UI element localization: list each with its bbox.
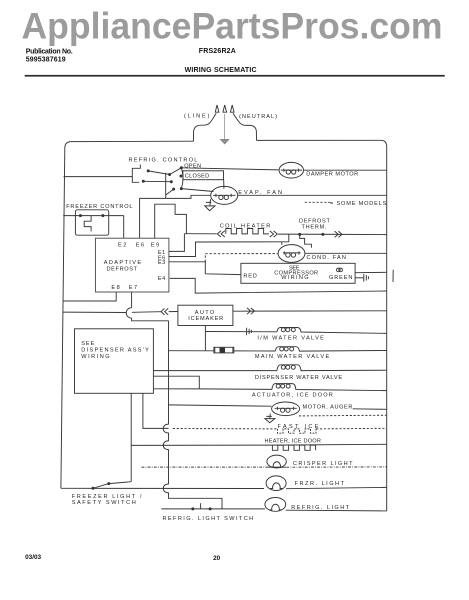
svg-text:CLOSED: CLOSED [185, 174, 210, 180]
svg-text:DAMPER MOTOR: DAMPER MOTOR [306, 172, 358, 178]
svg-text:AUTO: AUTO [195, 310, 215, 316]
svg-text:= SOME MODELS: = SOME MODELS [330, 201, 387, 207]
svg-text:FREEZER CONTROL: FREEZER CONTROL [66, 204, 132, 210]
svg-text:REFRIG. CONTROL: REFRIG. CONTROL [129, 157, 198, 163]
svg-text:ICEMAKER: ICEMAKER [188, 316, 223, 322]
svg-text:E3: E3 [158, 260, 166, 266]
svg-text:(LINE): (LINE) [184, 114, 210, 120]
svg-text:SEE: SEE [81, 341, 94, 347]
svg-text:MOTOR, AUGER: MOTOR, AUGER [303, 405, 353, 411]
svg-text:DEFROST: DEFROST [107, 267, 138, 273]
svg-text:COIL HEATER: COIL HEATER [220, 224, 271, 230]
svg-text:MAIN WATER VALVE: MAIN WATER VALVE [255, 354, 330, 360]
svg-text:FRS26R2A: FRS26R2A [199, 48, 236, 55]
svg-text:5995387619: 5995387619 [26, 57, 66, 64]
svg-text:EVAP. FAN: EVAP. FAN [238, 190, 282, 196]
svg-text:(NEUTRAL): (NEUTRAL) [239, 114, 277, 120]
svg-text:COND. FAN: COND. FAN [307, 255, 347, 261]
svg-text:Publication No.: Publication No. [26, 49, 73, 56]
svg-text:WIRING SCHEMATIC: WIRING SCHEMATIC [185, 67, 257, 74]
svg-text:CRISPER LIGHT: CRISPER LIGHT [293, 461, 353, 467]
svg-text:I/M WATER VALVE: I/M WATER VALVE [257, 335, 324, 341]
svg-text:FRZR. LIGHT: FRZR. LIGHT [295, 481, 345, 487]
svg-text:AppliancePartsPros.com: AppliancePartsPros.com [22, 5, 443, 46]
svg-text:DISPENSER WATER VALVE: DISPENSER WATER VALVE [255, 375, 342, 381]
svg-text:SAFETY SWITCH: SAFETY SWITCH [72, 500, 136, 506]
svg-text:GREEN: GREEN [329, 275, 353, 281]
svg-text:RED: RED [243, 274, 257, 280]
svg-text:ACTUATOR, ICE DOOR: ACTUATOR, ICE DOOR [252, 392, 333, 398]
svg-text:ADAPTIVE: ADAPTIVE [104, 260, 142, 266]
svg-text:THERM.: THERM. [302, 224, 327, 230]
svg-text:DISPENSER ASS'Y: DISPENSER ASS'Y [81, 347, 149, 353]
svg-text:REFRIG. LIGHT SWITCH: REFRIG. LIGHT SWITCH [163, 516, 254, 522]
svg-text:E4: E4 [158, 276, 166, 282]
svg-text:03/03: 03/03 [25, 554, 41, 561]
svg-text:OPEN: OPEN [184, 164, 201, 170]
svg-text:20: 20 [213, 555, 221, 562]
svg-text:REFRIG. LIGHT: REFRIG. LIGHT [291, 505, 349, 511]
svg-text:HEATER, ICE DOOR: HEATER, ICE DOOR [265, 438, 322, 444]
